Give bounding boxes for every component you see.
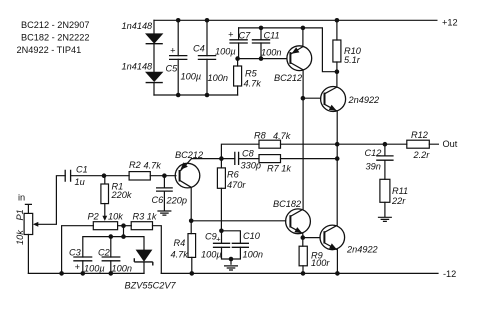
svg-text:Out: Out bbox=[443, 139, 458, 149]
svg-text:100n: 100n bbox=[261, 48, 281, 58]
svg-text:BZV55C2V7: BZV55C2V7 bbox=[125, 281, 177, 291]
svg-text:BC212: BC212 bbox=[274, 73, 302, 83]
svg-text:C6: C6 bbox=[152, 195, 165, 205]
wire C3 C2 bottoms bbox=[83, 261, 111, 274]
svg-text:C2: C2 bbox=[98, 248, 110, 258]
svg-text:R7 1k: R7 1k bbox=[267, 164, 291, 174]
capacitor C6 plates bbox=[156, 188, 173, 191]
wiper arrow P1 bbox=[33, 222, 38, 227]
wire BC182 emitter node bbox=[303, 237, 320, 239]
capacitor C4 plates bbox=[198, 56, 216, 60]
svg-text:330p: 330p bbox=[241, 161, 261, 171]
svg-text:C8: C8 bbox=[242, 149, 255, 159]
resistor R6 bbox=[217, 168, 225, 188]
wire C11 branch bbox=[260, 28, 262, 59]
svg-text:10k: 10k bbox=[108, 212, 123, 222]
wire C7 branch bbox=[238, 28, 240, 59]
wire P1 stubs bbox=[25, 204, 31, 273]
wire base 2n4922#1 bbox=[303, 97, 321, 99]
wire lower-left rail bbox=[154, 94, 238, 96]
svg-text:4.7k: 4.7k bbox=[273, 131, 291, 141]
svg-text:-12: -12 bbox=[443, 269, 456, 279]
svg-text:C10: C10 bbox=[243, 231, 261, 241]
svg-text:R4: R4 bbox=[174, 238, 186, 248]
capacitor C11 plates bbox=[252, 40, 270, 43]
resistor R3 bbox=[131, 222, 152, 230]
transistor Q2 2n4922 top bbox=[321, 87, 346, 112]
svg-text:+: + bbox=[75, 262, 81, 272]
wire 2n4922#2 emitter bbox=[336, 250, 338, 274]
wire C12 R11 branch bbox=[384, 144, 386, 217]
zener diode BZV55C2V7 bbox=[134, 250, 153, 266]
svg-text:22r: 22r bbox=[391, 196, 406, 206]
svg-text:4.7k: 4.7k bbox=[144, 161, 162, 171]
wire +12 top rail bbox=[154, 19, 437, 21]
svg-text:BC212: BC212 bbox=[175, 150, 203, 160]
svg-text:100µ: 100µ bbox=[215, 47, 236, 57]
wire R2 to base bbox=[150, 175, 176, 177]
resistor R8 bbox=[259, 140, 281, 148]
svg-text:220p: 220p bbox=[166, 196, 187, 206]
svg-text:2n4922: 2n4922 bbox=[348, 95, 380, 105]
capacitor C5 plates bbox=[169, 56, 187, 60]
resistor R5 bbox=[234, 66, 242, 86]
resistor R11 bbox=[380, 179, 390, 202]
wire node P2R3 down bbox=[123, 226, 125, 237]
wire output row bbox=[337, 143, 438, 145]
svg-text:C4: C4 bbox=[193, 44, 205, 54]
capacitor C3 plates bbox=[73, 257, 92, 261]
svg-text:100r: 100r bbox=[311, 258, 330, 268]
resistor R1 bbox=[101, 184, 109, 204]
svg-text:100n: 100n bbox=[243, 250, 263, 260]
wire R3 right bbox=[153, 226, 162, 274]
resistor R2 bbox=[129, 172, 150, 180]
wire R7 row bbox=[192, 158, 338, 160]
resistor R10 bbox=[333, 40, 341, 62]
svg-text:220k: 220k bbox=[111, 190, 132, 200]
wire second rail y28 bbox=[239, 28, 337, 72]
wire R6 stubs bbox=[220, 159, 222, 231]
capacitor C10 plates bbox=[232, 243, 249, 247]
svg-text:C9: C9 bbox=[205, 232, 217, 242]
svg-text:470r: 470r bbox=[227, 180, 246, 190]
wire -12 rail right bbox=[161, 272, 438, 274]
wire C4 branch bbox=[206, 20, 208, 95]
svg-text:100µ: 100µ bbox=[201, 250, 222, 260]
wire power line x337 bbox=[336, 111, 338, 225]
capacitor C7 plates bbox=[229, 40, 247, 43]
wire BC212#2 collector vertical bbox=[190, 187, 192, 233]
wire C9 C10 bottom bracket bbox=[222, 247, 241, 264]
svg-text:100n: 100n bbox=[208, 73, 228, 83]
resistor R4 bbox=[188, 234, 196, 258]
svg-text:4.7k: 4.7k bbox=[171, 250, 189, 260]
svg-text:R5: R5 bbox=[245, 69, 258, 79]
svg-text:in: in bbox=[18, 193, 25, 203]
wire BC212#1 emitter vertical bbox=[302, 28, 304, 47]
svg-text:4.7k: 4.7k bbox=[244, 79, 262, 89]
svg-text:+: + bbox=[228, 30, 234, 40]
resistor R12 bbox=[407, 140, 430, 148]
resistor R9 bbox=[299, 246, 307, 266]
transistor Q1 BC212 top bbox=[287, 46, 312, 71]
wire R4 stem bbox=[191, 257, 193, 273]
wire zener stem bbox=[143, 262, 145, 274]
svg-text:BC182: BC182 bbox=[273, 199, 301, 209]
transistor Q3 BC212 lower bbox=[175, 159, 200, 188]
wire C5 branch bbox=[177, 20, 179, 95]
transistor Q4 BC182 bbox=[286, 209, 311, 238]
svg-text:+: + bbox=[216, 235, 221, 244]
svg-text:100n: 100n bbox=[112, 264, 132, 274]
diode D2 1n4148 bbox=[145, 72, 163, 83]
svg-text:C7: C7 bbox=[239, 31, 252, 41]
svg-text:C5: C5 bbox=[166, 64, 179, 74]
svg-text:R2: R2 bbox=[129, 160, 141, 170]
potentiometer P2 body bbox=[93, 222, 117, 230]
capacitor C8 plates bbox=[235, 152, 239, 165]
wire R9 stubs bbox=[302, 238, 304, 274]
wire base row BC212#1 bbox=[239, 58, 287, 60]
svg-text:P1: P1 bbox=[15, 209, 25, 220]
capacitor C1 plates bbox=[65, 170, 70, 182]
svg-text:BC182 - 2N2222: BC182 - 2N2222 bbox=[21, 33, 89, 43]
wire ground rail left bbox=[28, 272, 144, 274]
svg-text:C11: C11 bbox=[264, 31, 280, 41]
svg-text:+: + bbox=[170, 46, 176, 56]
wire P2 to R3 bbox=[118, 225, 132, 227]
capacitor C12 plates bbox=[376, 156, 393, 160]
wiper arrow P2 from R1 bbox=[102, 216, 107, 221]
wire C6 stubs bbox=[163, 176, 165, 211]
wire C3 C2 zener top bbox=[83, 237, 144, 257]
wire R8 row bbox=[221, 144, 337, 158]
wire R10 stubs bbox=[336, 20, 338, 87]
ground below C6 bbox=[157, 211, 171, 215]
svg-text:R8: R8 bbox=[254, 131, 267, 141]
wire C1 to R1 bbox=[71, 175, 130, 177]
wire P1 wiper feed bbox=[37, 176, 66, 225]
diode D1 1n4148 bbox=[145, 33, 163, 43]
svg-text:2.2r: 2.2r bbox=[413, 150, 431, 160]
wire W1 BC182 base bbox=[191, 220, 286, 222]
wire R5 stubs bbox=[237, 59, 239, 95]
wire collector chain x303 bbox=[302, 70, 304, 209]
wire P2 left bbox=[62, 226, 94, 274]
resistor R7 bbox=[259, 155, 281, 163]
svg-text:R6: R6 bbox=[227, 170, 240, 180]
svg-text:1n4148: 1n4148 bbox=[122, 62, 154, 72]
potentiometer P1 body bbox=[24, 213, 33, 234]
capacitor C9 plates bbox=[213, 243, 230, 247]
svg-text:R11: R11 bbox=[392, 186, 408, 196]
svg-text:R3 1k: R3 1k bbox=[133, 212, 157, 222]
wire C9 C10 top bbox=[221, 231, 240, 244]
svg-text:R12: R12 bbox=[411, 130, 428, 140]
wire R1 arrow to P2 bbox=[104, 204, 106, 219]
svg-text:100µ: 100µ bbox=[84, 264, 105, 274]
transistor Q5 2n4922 lower bbox=[320, 225, 345, 250]
svg-text:C3: C3 bbox=[69, 248, 82, 258]
ground below R11 bbox=[378, 217, 392, 221]
svg-text:C12: C12 bbox=[365, 148, 382, 158]
svg-text:C1: C1 bbox=[76, 165, 88, 175]
ground below C9 C10 bbox=[224, 266, 238, 270]
capacitor C2 plates bbox=[102, 257, 121, 261]
svg-text:5.1r: 5.1r bbox=[344, 55, 361, 65]
svg-text:10k: 10k bbox=[15, 230, 25, 245]
svg-text:2n4922: 2n4922 bbox=[346, 245, 378, 255]
svg-text:BC212 - 2N2907: BC212 - 2N2907 bbox=[21, 20, 89, 30]
svg-text:39n: 39n bbox=[366, 162, 381, 172]
wire diode chain stem bbox=[153, 20, 155, 95]
svg-text:+12: +12 bbox=[442, 17, 458, 27]
svg-text:100µ: 100µ bbox=[181, 72, 202, 82]
svg-text:1n4148: 1n4148 bbox=[122, 21, 154, 31]
wire R1 stub bbox=[104, 176, 106, 184]
svg-text:P2: P2 bbox=[88, 212, 99, 222]
svg-text:1u: 1u bbox=[75, 177, 85, 187]
svg-text:2N4922 - TIP41: 2N4922 - TIP41 bbox=[17, 45, 82, 55]
